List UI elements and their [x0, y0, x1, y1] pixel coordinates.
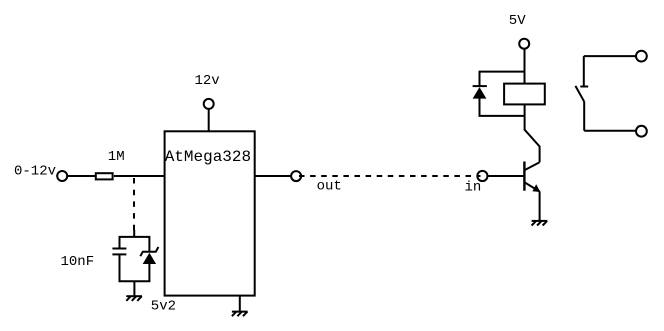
terminal in — [477, 171, 487, 181]
zener diode 5v2 triangle — [143, 253, 156, 264]
wire dashed out to in — [299, 175, 481, 177]
capacitor C1 plates — [112, 248, 126, 250]
wire emitter to ground — [539, 191, 541, 221]
wire contact bottom — [584, 130, 635, 132]
wire contact moving pole — [583, 102, 585, 131]
svg-text:out: out — [317, 178, 342, 194]
svg-text:10nF: 10nF — [61, 254, 95, 270]
terminal contact bottom — [636, 126, 647, 137]
wire contact top — [584, 55, 636, 57]
wire collector up to relay — [525, 104, 540, 162]
wire snubber top rail — [120, 237, 150, 252]
wire snubber to ground — [133, 281, 135, 296]
svg-text:1M: 1M — [108, 149, 125, 165]
relay coil K1 — [504, 84, 545, 105]
svg-text:0-12v: 0-12v — [14, 164, 56, 180]
wire resistor to MCU pin — [114, 175, 165, 177]
wire contact fixed pole — [583, 56, 585, 86]
wire snubber bottom rail — [119, 280, 151, 282]
ground snubber — [126, 296, 142, 301]
ground emitter — [532, 221, 548, 226]
terminal out — [291, 171, 301, 181]
terminal 12v — [204, 99, 214, 109]
wire diode bottom branch — [480, 98, 525, 116]
wire diode top branch — [480, 72, 525, 87]
svg-text:12v: 12v — [195, 73, 220, 89]
transistor Q1 collector stroke — [524, 162, 539, 170]
wire tap stub to snubber — [133, 230, 135, 237]
svg-text:5V: 5V — [509, 13, 526, 29]
ground MCU — [232, 312, 248, 317]
terminal 5V — [519, 39, 529, 49]
relay contact crossbar — [580, 86, 588, 88]
transistor Q1 emitter stroke — [525, 182, 540, 191]
terminal 0-12v — [57, 171, 67, 181]
transistor Q1 emitter arrow — [532, 184, 540, 192]
wire MCU to ground — [239, 296, 241, 312]
relay contact blade — [575, 86, 584, 102]
wire 12v supply to MCU — [208, 109, 210, 131]
diode D1 cathode bar — [473, 85, 487, 87]
IC U1 AtMega328 body — [165, 131, 255, 295]
wire in to transistor base — [488, 175, 524, 177]
wire 5V to relay — [524, 49, 526, 84]
wire zener bottom lead — [148, 263, 150, 281]
terminal contact top — [636, 51, 647, 62]
zener diode 5v2 bar — [140, 247, 158, 256]
svg-text:AtMega328: AtMega328 — [165, 148, 251, 166]
transistor Q1 base bar — [523, 162, 525, 191]
wire terminal to resistor — [68, 175, 95, 177]
resistor 1M — [96, 173, 113, 179]
svg-text:in: in — [465, 180, 482, 196]
svg-text:5v2: 5v2 — [151, 298, 176, 314]
wire dashed tap at node — [133, 178, 135, 231]
diode D1 triangle — [473, 87, 487, 99]
wire MCU out pin — [255, 175, 292, 177]
wire capacitor bottom lead — [119, 254, 121, 281]
